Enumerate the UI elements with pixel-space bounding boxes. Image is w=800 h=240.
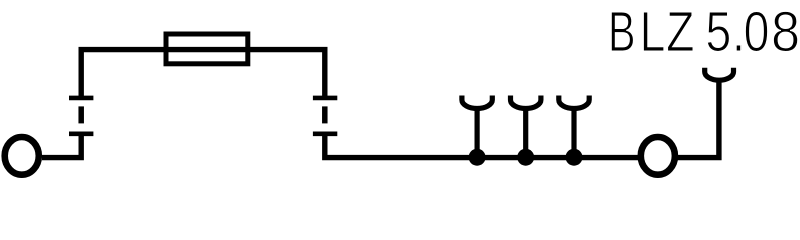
disconnect lower bar right bbox=[313, 132, 337, 137]
plug stem 1 bbox=[475, 107, 480, 157]
terminal circle right bbox=[641, 137, 675, 175]
plug socket cup 1 bbox=[462, 96, 492, 109]
fuse body bbox=[166, 34, 248, 64]
junction dot 1 bbox=[469, 149, 486, 166]
junction dot 3 bbox=[566, 149, 583, 166]
junction dot 2 bbox=[517, 149, 534, 166]
plug stem 2 bbox=[523, 107, 528, 157]
disconnect dash right bbox=[322, 106, 328, 123]
wire up from left disconnect along top rail through fuse and down to right disconnect bbox=[81, 50, 325, 98]
disconnect upper bar right bbox=[313, 96, 337, 101]
period of label 5.08 bbox=[737, 45, 742, 50]
disconnect dash left bbox=[78, 106, 84, 123]
plug socket cup 3 bbox=[559, 96, 589, 109]
wire left circle to left disconnect and up to lower bar bbox=[42, 134, 81, 158]
disconnect lower bar left bbox=[69, 132, 93, 137]
plug socket cup BLZ bbox=[705, 68, 734, 80]
wire down from right disconnect along bottom rail to right circle bbox=[325, 134, 640, 158]
plug stem 3 bbox=[571, 107, 576, 157]
plug socket cup 2 bbox=[511, 96, 541, 109]
terminal circle left bbox=[5, 137, 39, 175]
wire right circle to riser up to BLZ plug bbox=[674, 80, 719, 158]
disconnect upper bar left bbox=[69, 96, 93, 101]
label BLZ 5.08 bbox=[608, 0, 798, 64]
